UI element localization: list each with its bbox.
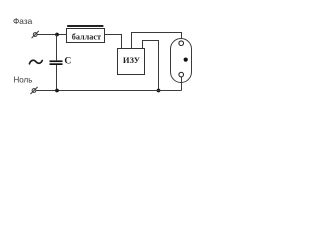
ballast core line <box>67 25 103 27</box>
lamp top electrode <box>179 41 184 46</box>
svg-text:балласт: балласт <box>72 32 101 41</box>
wire capacitor branch upper <box>56 35 58 61</box>
lamp EL1 envelope (stadium) <box>171 39 192 83</box>
junction dot capacitor top tap <box>55 33 59 37</box>
lamp gas dot <box>184 58 188 62</box>
wire phase terminal to ballast <box>37 34 66 36</box>
svg-text:ИЗУ: ИЗУ <box>123 55 141 65</box>
terminal Фаза (circle with slash) <box>32 31 39 38</box>
svg-text:Ноль: Ноль <box>14 76 33 85</box>
wire IZU middle pin to lamp top electrode <box>132 33 182 49</box>
svg-text:Фаза: Фаза <box>13 16 33 26</box>
ignitor box U1 ИЗУ <box>118 49 145 75</box>
junction dot IZU neutral tap <box>157 89 161 93</box>
AC source symbol ~ <box>29 60 42 64</box>
wire ballast to IZU left pin <box>105 35 122 49</box>
capacitor C1 bottom plate <box>50 63 63 65</box>
svg-text:C: C <box>64 56 71 67</box>
ballast box <box>67 29 105 43</box>
wire IZU right pin to neutral rail <box>143 41 159 91</box>
wire neutral rail <box>36 90 182 92</box>
capacitor C1 top plate <box>50 60 63 62</box>
wire capacitor branch lower <box>56 65 58 91</box>
junction dot capacitor bottom tap <box>55 89 59 93</box>
wire lamp bottom electrode to rail <box>181 77 183 91</box>
terminal Ноль (circle with slash) <box>30 87 37 94</box>
lamp bottom electrode <box>179 72 184 77</box>
